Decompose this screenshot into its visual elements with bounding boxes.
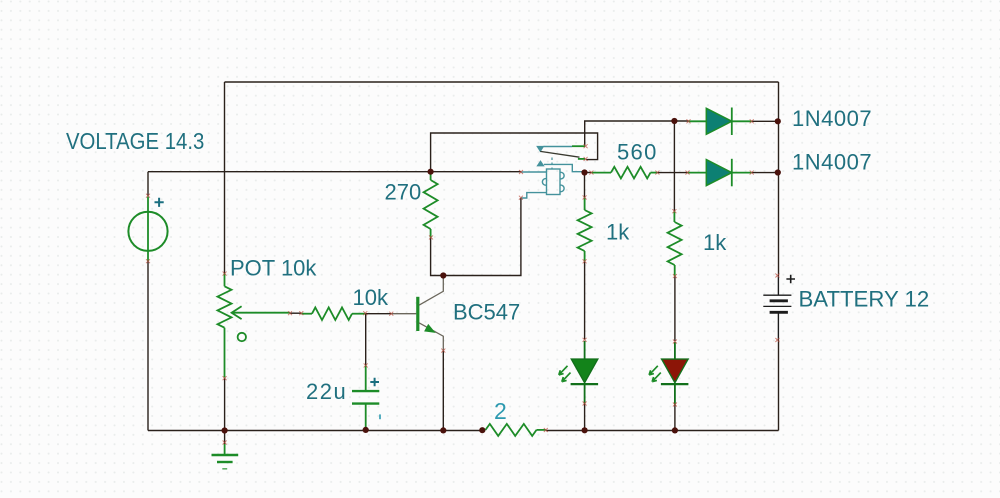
junction node B (560/1k) (581, 169, 587, 175)
wire node B to 560 left pin (585, 172, 592, 174)
diode D2 triangle (706, 160, 732, 186)
relay RL1 coil bottom pin wire (521, 193, 547, 198)
wire R4 bottom to LED D4 anode (674, 276, 676, 341)
wire diode D2 cathode to right rail (752, 172, 779, 174)
ground bar 2 (217, 461, 233, 463)
LED D4 anode lead (674, 342, 676, 359)
svg-text:1N4007: 1N4007 (792, 150, 872, 175)
LED D3 light arrow 1 (559, 366, 568, 375)
svg-text:560: 560 (617, 140, 658, 165)
battery BT1 plate 3 long (763, 305, 791, 307)
resistor R5 560 left lead (591, 172, 611, 174)
potentiometer RV1 o marker (238, 333, 246, 341)
wire LED D3 cathode to bottom rail (584, 404, 586, 431)
resistor R2 10k right lead (352, 313, 365, 315)
transistor Q1 collector lead (419, 277, 443, 305)
wire 560 to diode D2 anode (657, 172, 687, 174)
wire POT bottom to bottom rail (224, 378, 226, 431)
wire pot wiper pin to R2 10k left pin (290, 312, 301, 314)
resistor R3 1k bottom lead (584, 251, 586, 261)
LED D3 cathode bar (571, 383, 599, 385)
LED D4 light arrow 1 (649, 366, 658, 375)
resistor R4 1k top lead (673, 211, 675, 222)
wire diode D1 cathode to right rail (752, 120, 779, 122)
wire bottom rail right section (546, 430, 779, 432)
diode D2 anode lead (688, 172, 707, 174)
LED D3 triangle (571, 359, 598, 383)
resistor R3 1k zigzag (578, 210, 592, 251)
relay RL1 coil left pin wire (521, 171, 547, 173)
wire relay pole up to top diode wire (585, 121, 689, 146)
wire base node down to capacitor (365, 314, 367, 366)
junction bottom rail node LED D4 (672, 427, 678, 433)
resistor R1 270 top lead (430, 173, 432, 180)
svg-text:1k: 1k (703, 230, 727, 255)
junction bottom rail node R6 (479, 427, 485, 433)
capacitor C1 bottom plate (352, 402, 379, 404)
diode D1 cathode bar (731, 108, 733, 136)
wire top junction down to R4 1k top (crosses 560 wire) (673, 121, 675, 211)
junction collector node (440, 272, 446, 278)
transistor Q1 base bar (416, 297, 419, 331)
potentiometer RV1 top lead (224, 274, 226, 287)
resistor R5 560 zigzag (611, 167, 651, 179)
junction bottom rail node cap (363, 427, 369, 433)
transistor Q1 base lead (391, 313, 416, 315)
resistor R6 2 left lead (483, 429, 486, 431)
resistor R3 1k top lead (584, 197, 586, 210)
wire left vertical from top rail to POT top (224, 82, 226, 274)
ground stem green (224, 444, 226, 455)
svg-text:BC547: BC547 (453, 299, 520, 324)
battery BT1 top lead (777, 276, 779, 296)
potentiometer RV1 wiper lead (232, 312, 290, 314)
relay RL1 NC pin stub (578, 158, 585, 160)
junction top wire node (671, 118, 677, 124)
wire LED D4 cathode to bottom rail (674, 405, 676, 431)
diode D1 cathode lead (732, 120, 752, 122)
capacitor C1 top lead (365, 365, 367, 391)
LED D4 light arrow 2 (652, 373, 661, 382)
capacitor C1 bottom lead (365, 404, 367, 430)
diode D2 cathode bar (731, 159, 733, 187)
wire R3 bottom to LED D3 anode (584, 261, 586, 339)
resistor R1 270 bottom lead (430, 229, 432, 237)
relay RL1 coil body (547, 169, 561, 195)
voltage source V1 circle (128, 212, 167, 251)
potentiometer RV1 zigzag body (218, 286, 232, 327)
relay RL1 coil right loop 1 (560, 172, 564, 179)
battery BT1 plate 4 short thick (770, 311, 788, 314)
wire voltage source bottom to bottom rail (147, 261, 149, 431)
relay RL1 pole line (544, 146, 573, 148)
wire right rail below battery (778, 340, 780, 431)
pin x marks (146, 194, 150, 198)
capacitor C1 plus sign (370, 378, 379, 387)
diode D1 anode lead (689, 120, 707, 122)
ground bar 1 (212, 454, 239, 456)
junction right rail node 2 (775, 169, 781, 175)
diode D2 cathode lead (732, 172, 752, 174)
ground bar 3 (222, 468, 227, 470)
svg-text:1N4007: 1N4007 (792, 106, 872, 131)
wire source to node A horizontal (148, 171, 431, 173)
capacitor C1 top plate (352, 390, 379, 392)
voltage source V1 plus sign (155, 198, 164, 207)
wire voltage source top lead (147, 172, 149, 196)
transistor Q1 emitter lead (419, 323, 443, 351)
potentiometer RV1 bottom lead (224, 328, 226, 378)
wire emitter to bottom rail (442, 351, 444, 431)
svg-text:270: 270 (385, 180, 422, 205)
transistor Q1 emitter arrow (425, 325, 435, 333)
svg-text:22u: 22u (306, 379, 347, 404)
resistor R6 2 zigzag (486, 424, 537, 436)
wire collector node to 270 bottom (431, 237, 444, 275)
battery BT1 plate 1 long (763, 294, 791, 296)
relay RL1 coil left loop (542, 179, 546, 186)
svg-text:VOLTAGE 14.3: VOLTAGE 14.3 (66, 128, 204, 154)
svg-text:POT 10k: POT 10k (230, 255, 317, 280)
battery BT1 bottom lead (777, 312, 779, 340)
junction node A (270/relay) (428, 169, 434, 175)
voltage source V1 vertical pin line (147, 197, 149, 262)
LED D3 cathode lead (584, 384, 586, 403)
relay RL1 coil right loop 2 (560, 185, 564, 192)
LED D3 anode lead (584, 341, 586, 359)
capacitor C1 polarity tick (379, 414, 381, 419)
diode D1 triangle (706, 108, 732, 134)
wire right vertical rail (top rail to battery +) (778, 82, 780, 276)
wire node A to relay coil left pin (431, 171, 521, 173)
LED D4 cathode bar (661, 383, 689, 385)
svg-text:BATTERY 12: BATTERY 12 (799, 286, 930, 311)
relay RL1 NO contact wire (544, 164, 584, 171)
relay RL1 switch arm (540, 151, 579, 157)
wire R2 right pin to transistor base pin (365, 313, 391, 315)
junction bottom rail node LED D3 (582, 427, 588, 433)
resistor R5 560 right lead (651, 172, 658, 174)
svg-text:1k: 1k (606, 220, 630, 245)
resistor R2 10k left lead (301, 313, 312, 315)
wire top rail (225, 81, 779, 83)
resistor R4 1k bottom lead (674, 265, 676, 276)
relay RL1 pole pin stub (572, 145, 585, 147)
wire bottom rail left section (148, 430, 485, 432)
svg-text:10k: 10k (353, 285, 389, 310)
battery BT1 plus sign (786, 275, 795, 284)
LED D4 triangle (662, 359, 689, 383)
resistor R6 2 right lead (537, 429, 546, 431)
resistor R1 270 zigzag (424, 180, 438, 229)
relay RL1 NO arrow (537, 161, 544, 166)
junction right rail node 1 (775, 118, 781, 124)
resistor R4 1k zigzag (668, 222, 682, 265)
wire ground stem (224, 431, 226, 445)
junction bottom rail node emitter (440, 427, 446, 433)
wire relay NC loop (node A up and over to switch pin) (431, 133, 598, 172)
battery BT1 plate 2 short thick (770, 299, 788, 302)
resistor R2 10k zigzag (312, 307, 352, 320)
LED D4 cathode lead (674, 384, 676, 404)
LED D3 light arrow 2 (562, 373, 571, 382)
wire relay coil bottom pin down and left to collector node (443, 198, 521, 276)
svg-text:2: 2 (494, 398, 507, 424)
wire node B down to R3 1k top (584, 173, 586, 198)
relay RL1 dashed link (551, 158, 553, 170)
potentiometer RV1 wiper arrow (232, 306, 242, 319)
relay RL1 pole arrow (537, 146, 544, 151)
junction bottom rail node pot (222, 427, 228, 433)
